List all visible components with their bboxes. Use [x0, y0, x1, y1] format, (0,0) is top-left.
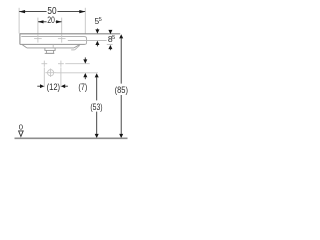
- svg-text:(53): (53): [90, 102, 102, 112]
- svg-text:5: 5: [112, 35, 115, 41]
- dimension (53): [95, 73, 99, 138]
- trap diagonal: [75, 45, 80, 50]
- extension line left of dim (12): [43, 67, 45, 87]
- extension line right of dim 50: [84, 8, 86, 34]
- water supply reference line: [65, 63, 89, 65]
- 8.5 reference stub: [107, 43, 113, 45]
- water supply cross left: [41, 61, 47, 67]
- floor line: [15, 137, 128, 139]
- dimension 50: [19, 10, 86, 13]
- svg-text:(85): (85): [115, 85, 128, 95]
- extension line right of dim (12): [60, 67, 62, 87]
- dimension (7): [83, 57, 87, 79]
- washbasin body: [22, 44, 80, 48]
- dimension 20: [38, 20, 62, 23]
- dimension (12): [37, 84, 68, 88]
- drain fitting below front view: [45, 48, 55, 54]
- svg-text:0: 0: [19, 122, 23, 131]
- waste outlet reference line: [56, 72, 98, 74]
- extension line left of dim 20: [37, 18, 39, 34]
- dimension 5.5: [95, 28, 99, 46]
- washbasin rim left edge: [19, 34, 21, 45]
- washbasin top edge line: [20, 33, 121, 35]
- washbasin inner rim line with right cap: [21, 37, 86, 45]
- waste outlet circle-cross: [45, 69, 56, 78]
- tap hole cross left (front view): [34, 35, 42, 43]
- datum triangle: [19, 131, 24, 137]
- svg-text:(7): (7): [78, 82, 87, 92]
- svg-text:5: 5: [99, 17, 102, 23]
- drain hidden vertical: [52, 45, 54, 48]
- extension line left of dim 50: [18, 8, 20, 34]
- svg-text:(12): (12): [47, 82, 61, 92]
- dimension (85): [119, 34, 123, 138]
- trap bottom stub: [71, 49, 75, 51]
- washbasin lip reference line: [68, 39, 107, 41]
- dimension 8.5: [108, 30, 112, 50]
- extension line right of dim 20: [61, 18, 63, 34]
- svg-text:20: 20: [47, 15, 55, 25]
- washbasin rim bottom line: [20, 43, 85, 45]
- water supply cross right: [58, 61, 64, 67]
- tap hole cross right (front view): [58, 35, 66, 43]
